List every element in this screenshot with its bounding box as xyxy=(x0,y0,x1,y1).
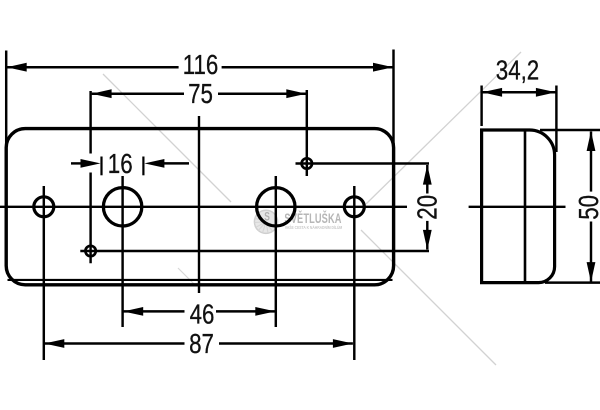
extension line x=306.8 (75 right / upper mark) xyxy=(306,90,308,176)
dimension 50 arrows xyxy=(587,131,596,151)
side view inner line xyxy=(524,130,527,283)
extension line small hole right xyxy=(353,186,355,360)
dimension 116 line xyxy=(7,66,179,69)
dimension 75 line xyxy=(92,92,184,95)
small hole right xyxy=(344,197,364,217)
extension line big hole right xyxy=(275,176,277,327)
svg-text:50: 50 xyxy=(574,195,600,220)
side view outline xyxy=(482,130,555,283)
dimension 20 arrow down xyxy=(423,230,432,250)
dimension 16 left arrow xyxy=(71,162,82,164)
watermark logo xyxy=(254,210,277,233)
svg-text:VAŠE CESTA K NÁHRADNÍM DÍLŮM: VAŠE CESTA K NÁHRADNÍM DÍLŮM xyxy=(285,225,342,231)
dimension 87 arrows xyxy=(44,339,64,348)
svg-text:75: 75 xyxy=(188,79,213,110)
lower mark crosshair xyxy=(85,246,95,256)
upper mark crosshair xyxy=(302,158,312,168)
watermark diagonal A xyxy=(103,74,231,202)
dimension 46 arrows xyxy=(123,307,143,316)
vertical centerline xyxy=(198,116,200,293)
inner bottom line xyxy=(8,279,393,281)
dimension 87 line xyxy=(44,342,184,345)
dimension 75 arrows xyxy=(92,89,112,98)
watermark diagonal C xyxy=(366,52,521,204)
svg-text:34,2: 34,2 xyxy=(496,55,539,86)
dimension 16 ticks xyxy=(100,157,102,176)
small hole left xyxy=(34,197,54,217)
body outline (front view) xyxy=(6,129,393,285)
svg-text:16: 16 xyxy=(108,149,133,180)
line lower mark to 20-dim xyxy=(80,250,429,252)
horizontal centerline xyxy=(0,206,407,208)
dimension 116 extension right xyxy=(392,50,394,146)
dimension 34,2 line xyxy=(482,91,556,94)
dimension 50 extension top xyxy=(540,129,600,131)
extension line big hole left xyxy=(121,176,123,327)
extension line x=90.6 (75 left / lower mark) xyxy=(89,91,91,154)
line upper mark to 20-dim xyxy=(296,162,430,164)
dimension 34,2 extension right xyxy=(555,86,557,153)
big hole left xyxy=(103,188,141,226)
dimension 50 line xyxy=(590,132,592,192)
dimension 34,2 arrows xyxy=(482,88,502,97)
dimension 20 arrow up xyxy=(423,165,432,185)
dimension 16 right arrow xyxy=(163,162,189,164)
extension line small hole left xyxy=(43,186,45,360)
big hole right xyxy=(257,188,295,226)
side view centerline xyxy=(469,206,566,208)
dimension 34,2 extension left xyxy=(480,86,482,127)
watermark diagonal D xyxy=(178,268,196,286)
dimension 116 extension left xyxy=(5,51,7,151)
svg-text:87: 87 xyxy=(189,329,214,360)
dimension 116 arrows xyxy=(7,63,27,72)
dimension 46 line xyxy=(123,310,184,313)
dimension 50 extension bottom xyxy=(545,281,600,283)
svg-text:20: 20 xyxy=(412,195,443,220)
svg-text:116: 116 xyxy=(183,50,219,81)
watermark diagonal B xyxy=(361,230,496,365)
svg-text:46: 46 xyxy=(190,299,215,330)
dimension 20 line xyxy=(426,165,428,194)
